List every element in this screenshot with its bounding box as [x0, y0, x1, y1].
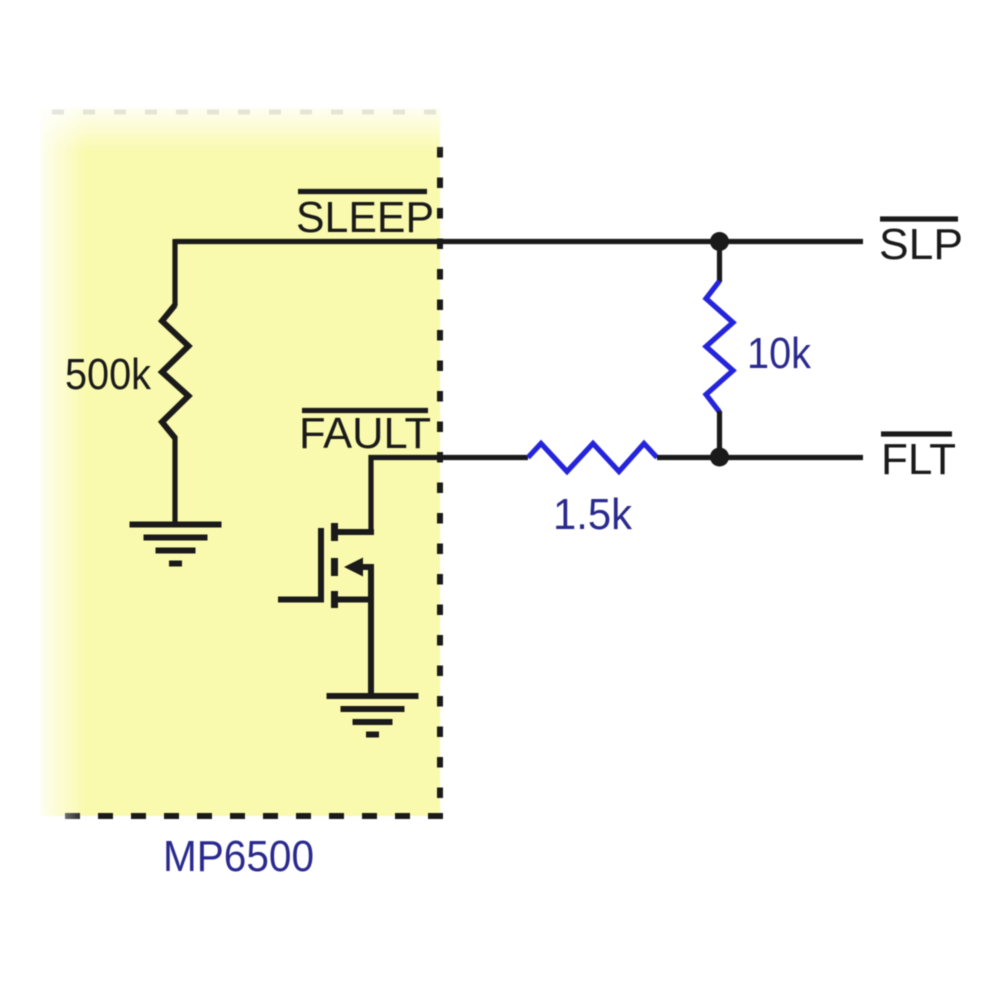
drain lead: [332, 529, 374, 535]
transistor Q1 open-drain MOSFET: [278, 523, 374, 696]
junction node FLT: [710, 448, 729, 467]
pin label SLEEP overline: [298, 189, 427, 194]
body lead: [356, 564, 374, 570]
resistor R1 10k zigzag: [706, 281, 733, 412]
net label FLT overline: [881, 431, 952, 436]
wire FAULT to MOSFET drain: [368, 455, 373, 533]
svg-text:500k: 500k: [65, 350, 152, 399]
wire SLEEP net horizontal: [175, 239, 863, 244]
net label SLP overline: [880, 216, 958, 221]
pin label FAULT overline: [302, 408, 428, 413]
svg-text:10k: 10k: [747, 329, 812, 378]
wire FAULT net left segment: [369, 455, 529, 460]
svg-text:MP6500: MP6500: [163, 832, 314, 881]
resistor R2 1.5k zigzag: [528, 444, 657, 472]
top fade of shaded region: [30, 100, 442, 152]
svg-text:FAULT: FAULT: [299, 409, 431, 458]
wire FAULT net right segment: [657, 455, 863, 460]
gate line: [318, 528, 324, 603]
ground symbol (MOSFET source): [327, 696, 419, 735]
IC boundary right dotted line: [437, 147, 443, 814]
junction node SLP: [710, 232, 729, 251]
channel top bar: [331, 523, 338, 541]
wire resistor 500k to ground: [172, 436, 177, 525]
ground symbol (500k): [130, 525, 222, 564]
wire resistor 10k to FLT node: [717, 411, 722, 458]
body arrow: [344, 558, 363, 577]
IC boundary top dotted line (faded): [52, 110, 440, 115]
gate lead: [278, 597, 324, 603]
IC boundary bottom dotted line: [48, 813, 443, 819]
svg-text:SLP: SLP: [879, 220, 963, 269]
source lead: [332, 597, 374, 603]
channel bottom bar: [331, 591, 338, 608]
svg-text:SLEEP: SLEEP: [296, 193, 434, 242]
channel middle bar: [331, 558, 338, 576]
svg-text:FLT: FLT: [881, 435, 956, 484]
source wire to ground: [368, 564, 374, 696]
resistor 500k zigzag: [162, 305, 189, 438]
svg-text:1.5k: 1.5k: [553, 490, 633, 539]
wire SLEEP to resistor 500k: [172, 239, 177, 306]
MP6500 IC shaded region: [40, 108, 440, 816]
wire SLP node to resistor 10k: [717, 242, 722, 282]
left fade of shaded region: [30, 100, 85, 820]
